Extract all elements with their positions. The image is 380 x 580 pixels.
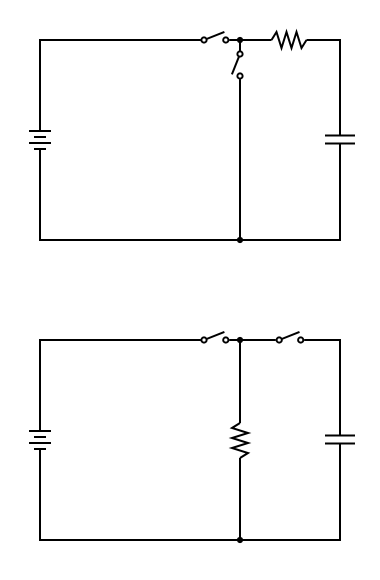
resistor R2 (232, 423, 248, 458)
wire: battery V2 top to top-left corner to switch S3 (40, 340, 201, 431)
junction node C (237, 337, 243, 343)
wire: switch S3 to node C and on to switch S4 (229, 339, 275, 341)
capacitor C2 (325, 436, 355, 444)
wire: node D to bottom-left corner to battery V2 bottom (40, 449, 240, 540)
wire: capacitor C2 to bottom-right corner to node D (240, 444, 340, 541)
wire: switch S2 down to node B (239, 80, 241, 241)
junction node D (237, 537, 243, 543)
switch S1 (open SPDT pole, top wire) (201, 32, 228, 43)
wire: node B to bottom-left corner to battery V1 bottom (40, 149, 240, 240)
switch S2 (open, vertical branch) (232, 51, 243, 78)
capacitor C1 (325, 136, 355, 144)
wire: battery V1 top to top-left corner to switch S1 (40, 40, 201, 131)
switch S4 (open, top wire right) (277, 332, 304, 343)
wire: resistor R2 down to node D (239, 458, 241, 540)
resistor R1 (272, 32, 307, 48)
wire: capacitor C1 to bottom-right corner to node B (240, 144, 340, 241)
wire: node C down to resistor R2 (239, 340, 241, 423)
wire: node A down to switch S2 (239, 40, 241, 51)
battery V1 (29, 131, 51, 149)
wire: switch S1 to node A and on to resistor R1 (229, 39, 271, 41)
wire: switch S4 to top-right corner down to capacitor C2 (304, 340, 340, 436)
junction node B (237, 237, 243, 243)
wire: resistor R1 to top-right corner down to capacitor C1 (307, 40, 341, 136)
battery V2 (29, 431, 51, 449)
junction node A (237, 37, 243, 43)
switch S3 (open, top wire left) (201, 332, 228, 343)
